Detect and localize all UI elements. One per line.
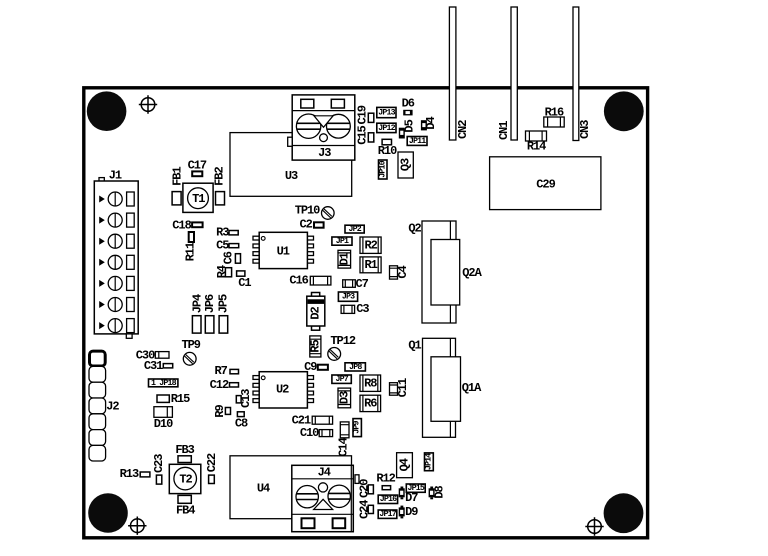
mounting hole top-left bbox=[87, 91, 127, 131]
svg-text:C8: C8 bbox=[235, 416, 248, 430]
capacitor C13 bbox=[236, 389, 253, 408]
diode D10 bbox=[154, 407, 173, 431]
jumper JP3 bbox=[338, 292, 357, 302]
diode D9 bbox=[399, 505, 419, 519]
svg-text:JP10: JP10 bbox=[378, 160, 387, 177]
svg-text:JP5: JP5 bbox=[216, 294, 230, 313]
svg-text:C19: C19 bbox=[356, 105, 370, 124]
capacitor C15 bbox=[356, 125, 374, 144]
test point TP10 bbox=[295, 203, 334, 219]
resistor R4 bbox=[215, 265, 232, 278]
svg-text:R8: R8 bbox=[364, 377, 377, 391]
svg-text:R14: R14 bbox=[527, 140, 546, 154]
svg-text:Q3: Q3 bbox=[399, 158, 413, 171]
ferrite bead FB2 bbox=[213, 167, 227, 205]
connector J4 bbox=[292, 465, 359, 531]
svg-text:D1: D1 bbox=[337, 252, 351, 265]
jumper JP16 bbox=[378, 495, 397, 504]
svg-text:R12: R12 bbox=[376, 472, 395, 486]
svg-text:C6: C6 bbox=[222, 251, 236, 264]
svg-text:FB3: FB3 bbox=[175, 443, 194, 457]
connector J3 bbox=[288, 95, 355, 160]
diode D8 bbox=[429, 486, 447, 500]
svg-text:CN3: CN3 bbox=[578, 120, 592, 139]
svg-text:JP2: JP2 bbox=[349, 225, 362, 234]
svg-text:JP1: JP1 bbox=[336, 237, 349, 246]
transistor Q4 bbox=[397, 453, 413, 478]
svg-text:C7: C7 bbox=[355, 277, 368, 291]
svg-text:R5: R5 bbox=[308, 340, 322, 353]
transistor Q3 bbox=[398, 152, 413, 178]
svg-text:J3: J3 bbox=[318, 146, 331, 160]
svg-text:C29: C29 bbox=[536, 178, 555, 192]
diode D6 bbox=[402, 96, 415, 115]
capacitor C19 bbox=[356, 105, 374, 124]
svg-text:Q4: Q4 bbox=[398, 458, 412, 471]
svg-text:C22: C22 bbox=[205, 453, 219, 472]
capacitor C7 bbox=[343, 277, 369, 291]
svg-text:D3: D3 bbox=[337, 391, 351, 404]
diode D7 bbox=[399, 487, 419, 506]
pin CN3 bbox=[573, 7, 592, 141]
svg-text:TP12: TP12 bbox=[330, 334, 355, 348]
resistor R11 bbox=[184, 232, 198, 261]
resistor R10 bbox=[378, 139, 397, 158]
resistor R13 bbox=[120, 467, 150, 481]
svg-text:C23: C23 bbox=[152, 454, 166, 473]
svg-text:C15: C15 bbox=[356, 125, 370, 144]
svg-text:JP12: JP12 bbox=[378, 124, 395, 133]
svg-text:D9: D9 bbox=[405, 505, 418, 519]
svg-text:U1: U1 bbox=[277, 244, 290, 258]
capacitor C31 bbox=[144, 359, 173, 373]
jumper JP15 bbox=[406, 484, 425, 493]
capacitor C2 bbox=[300, 218, 324, 232]
mounting hole top-right bbox=[604, 91, 644, 131]
capacitor C6 bbox=[222, 251, 241, 264]
svg-text:C11: C11 bbox=[396, 378, 410, 397]
svg-text:JP8: JP8 bbox=[349, 363, 362, 372]
svg-text:C5: C5 bbox=[216, 238, 229, 252]
jumper JP10 bbox=[378, 160, 387, 179]
svg-text:J2: J2 bbox=[106, 400, 119, 414]
svg-text:JP6: JP6 bbox=[203, 294, 217, 313]
svg-text:JP16: JP16 bbox=[380, 495, 397, 504]
resistor R12 bbox=[376, 472, 395, 490]
capacitor C11 bbox=[390, 378, 411, 397]
diode D3 bbox=[337, 388, 351, 408]
svg-text:U3: U3 bbox=[285, 169, 298, 183]
svg-text:C14: C14 bbox=[337, 437, 351, 456]
resistor R2 bbox=[360, 237, 381, 253]
pin CN2 bbox=[449, 7, 469, 140]
transformer T1 bbox=[183, 183, 213, 212]
capacitor C23 bbox=[152, 454, 166, 484]
resistor R14 bbox=[526, 131, 547, 154]
svg-text:C1: C1 bbox=[238, 276, 251, 290]
svg-text:Q1: Q1 bbox=[408, 339, 421, 353]
svg-text:JP11: JP11 bbox=[409, 137, 426, 146]
IC U1 bbox=[253, 232, 314, 268]
pin CN1 bbox=[497, 7, 517, 140]
svg-text:C10: C10 bbox=[300, 426, 319, 440]
mounting hole bottom-right bbox=[604, 493, 644, 533]
svg-text:U2: U2 bbox=[276, 383, 289, 397]
jumper JP2 bbox=[345, 225, 364, 234]
svg-text:C31: C31 bbox=[144, 359, 163, 373]
capacitor C20 bbox=[357, 479, 373, 498]
ferrite bead FB3 bbox=[175, 443, 194, 463]
diode D2 bbox=[307, 293, 325, 331]
test point TP12 bbox=[328, 334, 356, 360]
capacitor C9 bbox=[304, 360, 328, 374]
svg-text:R1: R1 bbox=[364, 258, 377, 272]
resistor R9 bbox=[213, 405, 231, 418]
jumper JP8 bbox=[345, 363, 365, 372]
capacitor C10 bbox=[300, 426, 333, 440]
diode D1 bbox=[337, 250, 351, 268]
capacitor C3 bbox=[341, 302, 369, 316]
resistor R3 bbox=[216, 225, 238, 239]
svg-text:R10: R10 bbox=[378, 144, 397, 158]
transformer T2 bbox=[169, 464, 201, 493]
IC U4 bbox=[230, 456, 352, 519]
svg-text:C12: C12 bbox=[210, 378, 229, 392]
transistor Q2 bbox=[408, 221, 482, 323]
svg-text:D7: D7 bbox=[405, 491, 418, 505]
IC U2 bbox=[253, 372, 314, 408]
board outline bbox=[84, 88, 648, 538]
jumper JP17 bbox=[378, 510, 397, 519]
svg-text:JP14: JP14 bbox=[424, 453, 433, 470]
svg-text:Q2: Q2 bbox=[408, 222, 421, 236]
svg-text:R2: R2 bbox=[364, 239, 377, 253]
svg-text:C3: C3 bbox=[356, 302, 369, 316]
mounting hole bottom-left bbox=[88, 493, 128, 533]
capacitor C16 bbox=[289, 274, 331, 288]
svg-text:1 JP18: 1 JP18 bbox=[151, 379, 177, 388]
svg-text:JP7: JP7 bbox=[336, 375, 349, 384]
capacitor C12 bbox=[210, 378, 239, 392]
svg-text:T1: T1 bbox=[192, 192, 205, 206]
fiducial crosshair bottom-left bbox=[128, 517, 146, 535]
resistor R6 bbox=[360, 395, 381, 411]
resistor R8 bbox=[360, 375, 381, 391]
resistor R15 bbox=[157, 392, 190, 406]
svg-text:C9: C9 bbox=[304, 360, 317, 374]
svg-text:TP9: TP9 bbox=[181, 338, 200, 352]
capacitor C24 bbox=[357, 500, 373, 519]
fiducial crosshair top-left bbox=[139, 95, 157, 113]
jumper JP5 bbox=[216, 294, 230, 333]
svg-text:D6: D6 bbox=[402, 96, 415, 110]
svg-text:D8: D8 bbox=[432, 486, 446, 499]
jumper JP12 bbox=[377, 123, 396, 133]
jumper JP14 bbox=[424, 453, 433, 471]
svg-text:R3: R3 bbox=[216, 225, 229, 239]
svg-text:Q1A: Q1A bbox=[462, 381, 482, 395]
svg-text:JP9: JP9 bbox=[353, 421, 362, 434]
jumper JP4 bbox=[190, 294, 204, 333]
capacitor C17 bbox=[188, 159, 207, 177]
connector J1 bbox=[94, 168, 138, 338]
svg-text:JP3: JP3 bbox=[342, 293, 355, 302]
J1 pin rows bbox=[99, 192, 134, 333]
svg-text:JP17: JP17 bbox=[379, 510, 396, 519]
capacitor C21 bbox=[292, 413, 333, 427]
svg-text:CN1: CN1 bbox=[497, 121, 511, 140]
svg-text:C16: C16 bbox=[289, 274, 308, 288]
ferrite bead FB4 bbox=[176, 495, 195, 517]
capacitor C14 bbox=[337, 422, 351, 457]
capacitor C1 bbox=[237, 271, 252, 290]
svg-text:D4: D4 bbox=[424, 117, 438, 130]
svg-text:FB4: FB4 bbox=[176, 504, 195, 518]
svg-text:C18: C18 bbox=[172, 218, 191, 232]
svg-text:D2: D2 bbox=[309, 307, 323, 320]
svg-text:U4: U4 bbox=[257, 482, 270, 496]
capacitor C30 bbox=[136, 348, 169, 362]
svg-text:JP13: JP13 bbox=[378, 109, 395, 118]
svg-text:C2: C2 bbox=[300, 218, 313, 232]
svg-text:R13: R13 bbox=[120, 467, 139, 481]
svg-text:R7: R7 bbox=[214, 364, 227, 378]
svg-text:J4: J4 bbox=[318, 466, 331, 480]
capacitor C5 bbox=[216, 238, 239, 252]
svg-text:CN2: CN2 bbox=[456, 120, 470, 139]
svg-text:T2: T2 bbox=[179, 472, 192, 486]
ferrite bead FB1 bbox=[170, 167, 184, 205]
capacitor C29 bbox=[490, 157, 601, 210]
svg-text:R11: R11 bbox=[184, 242, 198, 261]
jumper JP11 bbox=[407, 137, 427, 146]
svg-text:FB2: FB2 bbox=[213, 167, 227, 186]
resistor R7 bbox=[214, 364, 238, 378]
jumper JP13 bbox=[377, 107, 396, 117]
capacitor C18 bbox=[172, 218, 202, 232]
resistor R5 bbox=[308, 336, 322, 357]
resistor R16 bbox=[544, 105, 564, 127]
capacitor C4 bbox=[390, 266, 411, 280]
fiducial crosshair bottom-right bbox=[585, 517, 603, 535]
diode D4 bbox=[421, 117, 438, 131]
jumper JP1 bbox=[332, 237, 352, 246]
jumper JP7 bbox=[332, 375, 351, 384]
diode D5 bbox=[399, 119, 417, 138]
transistor Q1 bbox=[408, 338, 482, 437]
resistor R1 bbox=[360, 257, 381, 273]
connector J2 bbox=[89, 351, 119, 461]
capacitor C22 bbox=[205, 453, 219, 484]
svg-text:D10: D10 bbox=[154, 417, 173, 431]
svg-text:Q2A: Q2A bbox=[462, 266, 482, 280]
svg-text:TP10: TP10 bbox=[295, 203, 320, 217]
jumper JP9 bbox=[353, 419, 362, 437]
jumper JP18 bbox=[149, 379, 178, 388]
capacitor C8 bbox=[235, 412, 248, 431]
svg-text:R6: R6 bbox=[364, 397, 377, 411]
svg-text:C13: C13 bbox=[239, 389, 253, 408]
svg-text:R15: R15 bbox=[171, 392, 190, 406]
IC U3 bbox=[230, 133, 352, 197]
svg-text:C4: C4 bbox=[396, 266, 410, 279]
svg-text:D5: D5 bbox=[402, 119, 416, 132]
test point TP9 bbox=[181, 338, 200, 365]
jumper JP6 bbox=[203, 294, 217, 333]
